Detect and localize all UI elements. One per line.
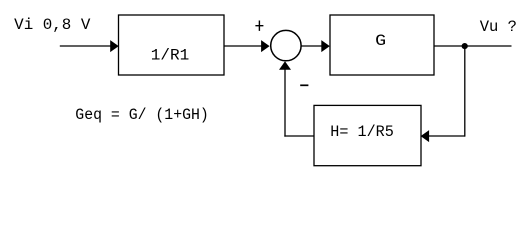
wire summing junction to block G [301,45,322,47]
plus sign [255,21,263,31]
block H [314,105,421,165]
wire block1 to summing junction [224,45,262,47]
arrowhead into summing junction [261,40,270,52]
svg-text:H= 1/R5: H= 1/R5 [330,123,394,141]
svg-text:Vu ?: Vu ? [480,18,517,36]
block 1/R1 [119,15,225,75]
svg-text:Vi 0,8 V: Vi 0,8 V [14,16,91,34]
arrowhead into summing junction from below [279,61,291,69]
wire feedback down from node [464,46,466,137]
wire output [434,45,512,47]
wire feedback up to summing junction [284,69,286,137]
arrowhead into block G [321,40,330,52]
wire feedback left horizontal from block H [284,135,314,137]
svg-text:Geq = G/ (1+GH): Geq = G/ (1+GH) [75,106,209,124]
node junction dot [462,43,468,49]
arrowhead into block 1/R1 [110,40,119,52]
svg-text:G: G [375,32,386,50]
block G [330,15,434,75]
summing junction [271,30,301,60]
svg-text:1/R1: 1/R1 [151,47,190,65]
arrowhead into block H [421,130,430,142]
wire feedback right horizontal [428,135,465,137]
minus sign [300,84,308,86]
wire input [60,45,112,47]
